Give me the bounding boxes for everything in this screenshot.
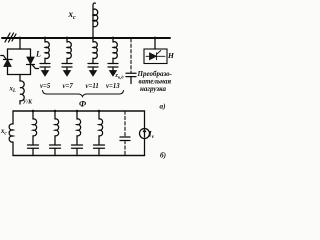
gate lead	[1, 56, 6, 60]
lead	[146, 55, 150, 57]
svg-text:ν=7: ν=7	[63, 83, 74, 90]
wire	[54, 148, 56, 155]
filter branch v=7	[62, 38, 72, 76]
wire	[76, 111, 78, 119]
dashed branch z k,d	[130, 39, 132, 73]
main bus (circuit a)	[2, 37, 170, 39]
gate lead	[157, 51, 161, 55]
wire	[98, 111, 100, 119]
node: TCR branch junction	[19, 37, 22, 40]
svg-text:ν=13: ν=13	[106, 83, 120, 90]
inductor xc (source reactance)	[93, 9, 98, 27]
wire	[92, 58, 94, 63]
node: filter 1 junction	[44, 37, 47, 40]
wire	[66, 67, 68, 71]
svg-text:xc: xc	[0, 128, 7, 137]
node: load junction	[154, 37, 157, 40]
svg-text:xL: xL	[9, 86, 16, 95]
wire reactor tail	[19, 101, 21, 104]
wire below z k,d capacitor	[130, 77, 132, 84]
wire	[66, 38, 68, 42]
wire	[76, 136, 78, 145]
node: filter 3 / source junction	[92, 37, 95, 40]
svg-text:ν=5: ν=5	[40, 83, 51, 90]
capacitor C7	[62, 63, 72, 65]
wire	[144, 111, 146, 129]
wire TCR drop	[19, 38, 21, 49]
ground arrow	[64, 71, 71, 77]
wire	[32, 148, 34, 155]
wire	[98, 136, 100, 145]
wire	[92, 38, 94, 42]
svg-text:Ф: Ф	[79, 99, 87, 109]
cathode bar	[156, 53, 158, 60]
node b2	[54, 110, 57, 113]
wire	[44, 67, 46, 71]
wire reactor drop	[19, 75, 21, 82]
capacitor	[120, 136, 130, 138]
capacitor	[28, 144, 39, 146]
ground arrow	[110, 71, 117, 77]
node: filter 2 junction	[66, 37, 69, 40]
svg-text:ν=11: ν=11	[86, 83, 99, 90]
anode triangle	[27, 57, 34, 64]
brace for filter group F	[43, 91, 124, 97]
wire	[54, 111, 56, 119]
capacitor C11	[88, 63, 98, 65]
arrow	[144, 131, 146, 137]
inductor xL (reactor coil)	[20, 81, 24, 101]
dashed wire	[124, 111, 126, 138]
cathode bar	[27, 64, 35, 66]
svg-text:L: L	[35, 50, 41, 59]
inductor	[77, 119, 81, 136]
filter branch b1	[28, 111, 39, 156]
svg-text:zк,д: zк,д	[115, 73, 125, 79]
node b1	[32, 110, 35, 113]
capacitor z k,d	[126, 72, 136, 74]
wire TCR bottom bar	[8, 74, 31, 76]
wire	[98, 148, 100, 155]
filter branch b4	[94, 111, 105, 156]
wire	[144, 139, 146, 156]
current source Iv	[140, 111, 150, 156]
wire TCR right vertical	[30, 49, 32, 75]
inductor L5	[45, 42, 49, 59]
thyristor VS1 (left, conducts up)	[1, 56, 12, 67]
inductor	[55, 119, 59, 136]
node b4	[98, 110, 101, 113]
thyristor VS2 (right, conducts down)	[27, 57, 39, 69]
anode triangle	[4, 60, 11, 67]
coil	[9, 124, 13, 142]
source circle	[140, 129, 150, 139]
lead	[157, 55, 166, 57]
wire	[32, 136, 34, 145]
wire	[32, 111, 34, 119]
wire	[44, 38, 46, 42]
svg-text:Н: Н	[167, 51, 174, 60]
wire bottom rail	[13, 155, 145, 157]
node b3	[76, 110, 79, 113]
supply hatch marks	[5, 33, 10, 42]
wire	[112, 58, 114, 63]
cathode bar	[4, 59, 13, 61]
capacitor C13	[108, 63, 118, 65]
triangle	[150, 53, 157, 60]
svg-text:а): а)	[160, 103, 166, 111]
wire TCR top bar	[8, 48, 31, 50]
filter branch v=5	[40, 38, 50, 76]
wire	[12, 142, 14, 156]
ground arrow	[42, 71, 49, 77]
wire	[112, 67, 114, 71]
inductor L7	[67, 42, 71, 59]
wire source branch	[93, 3, 96, 38]
wire load drop	[154, 38, 156, 49]
capacitor	[94, 144, 105, 146]
wire TCR left vertical	[7, 49, 9, 75]
inductor L11	[93, 42, 97, 59]
capacitor C5	[40, 63, 50, 65]
svg-text:б): б)	[160, 152, 166, 160]
dashed branch b5	[120, 111, 130, 156]
svg-text:xс: xс	[68, 9, 77, 21]
svg-text:Iν: Iν	[148, 130, 155, 141]
gate lead	[32, 65, 38, 69]
wire top rail	[13, 110, 145, 112]
wire	[66, 58, 68, 63]
wire	[112, 38, 114, 42]
dashed wire	[124, 141, 126, 156]
wire	[44, 58, 46, 63]
svg-text:У/К: У/К	[23, 100, 34, 106]
capacitor	[72, 144, 83, 146]
inductor	[99, 119, 103, 136]
wire	[12, 111, 14, 124]
node: filter 4 junction	[112, 37, 115, 40]
filter branch v=13	[108, 38, 118, 76]
capacitor	[50, 144, 61, 146]
ground arrow	[90, 71, 97, 77]
converter load box H	[144, 49, 167, 64]
filter branch b3	[72, 111, 83, 156]
filter branch v=11	[88, 38, 98, 76]
inductor	[33, 119, 37, 136]
wire	[76, 148, 78, 155]
thyristor U3 (inside load box)	[146, 51, 165, 60]
svg-text:нагрузка: нагрузка	[140, 85, 166, 93]
inductor L13	[113, 42, 117, 59]
wire	[92, 67, 94, 71]
filter branch b2	[50, 111, 61, 156]
wire	[54, 136, 56, 145]
